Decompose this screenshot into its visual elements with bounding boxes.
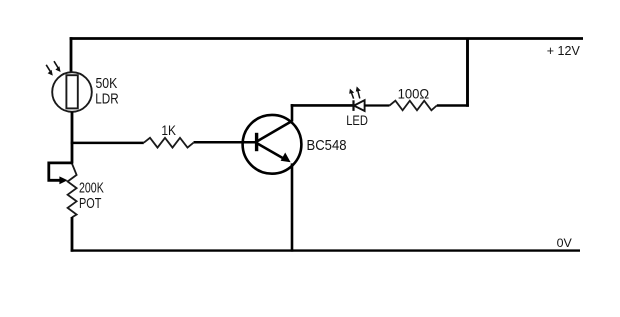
wire pot bottom — [71, 217, 74, 252]
wire LDR top — [70, 37, 73, 72]
svg-text:BC548: BC548 — [307, 138, 347, 154]
svg-text:POT: POT — [79, 196, 102, 212]
LED light arrow 1 — [349, 89, 354, 99]
svg-text:LDR: LDR — [95, 91, 118, 107]
LED — [354, 100, 365, 111]
LDR light arrow 2 — [54, 61, 61, 72]
LDR body — [52, 72, 92, 112]
wire collector up — [291, 104, 294, 121]
resistor 1K — [144, 138, 194, 148]
svg-text:100Ω: 100Ω — [398, 85, 430, 101]
transistor BC548 — [243, 115, 302, 174]
svg-text:+ 12V: + 12V — [547, 43, 580, 58]
wire LDR bottom to pot — [71, 112, 74, 164]
wire emitter down — [291, 163, 294, 251]
svg-text:50K: 50K — [96, 76, 118, 92]
wire +12V drop — [466, 38, 469, 107]
resistor 100 ohm — [390, 101, 437, 111]
wire 100 ohm to +12V drop — [437, 104, 469, 107]
wire node to 1K resistor — [71, 142, 144, 145]
LDR light arrow 1 — [46, 65, 53, 76]
potentiometer 200K body — [68, 164, 77, 218]
wire collector to LED — [291, 104, 353, 107]
svg-text:200K: 200K — [79, 180, 104, 196]
potentiometer wiper arrow — [59, 176, 67, 184]
+12V rail — [70, 37, 583, 40]
LED light arrow 2 — [356, 86, 361, 98]
potentiometer wiper wire — [49, 163, 73, 180]
svg-text:0V: 0V — [557, 236, 573, 250]
0V rail — [71, 249, 580, 251]
svg-text:LED: LED — [346, 112, 368, 128]
wire LED to 100 ohm — [365, 104, 390, 106]
wire 1K to base — [194, 141, 256, 144]
svg-text:1K: 1K — [161, 122, 176, 138]
